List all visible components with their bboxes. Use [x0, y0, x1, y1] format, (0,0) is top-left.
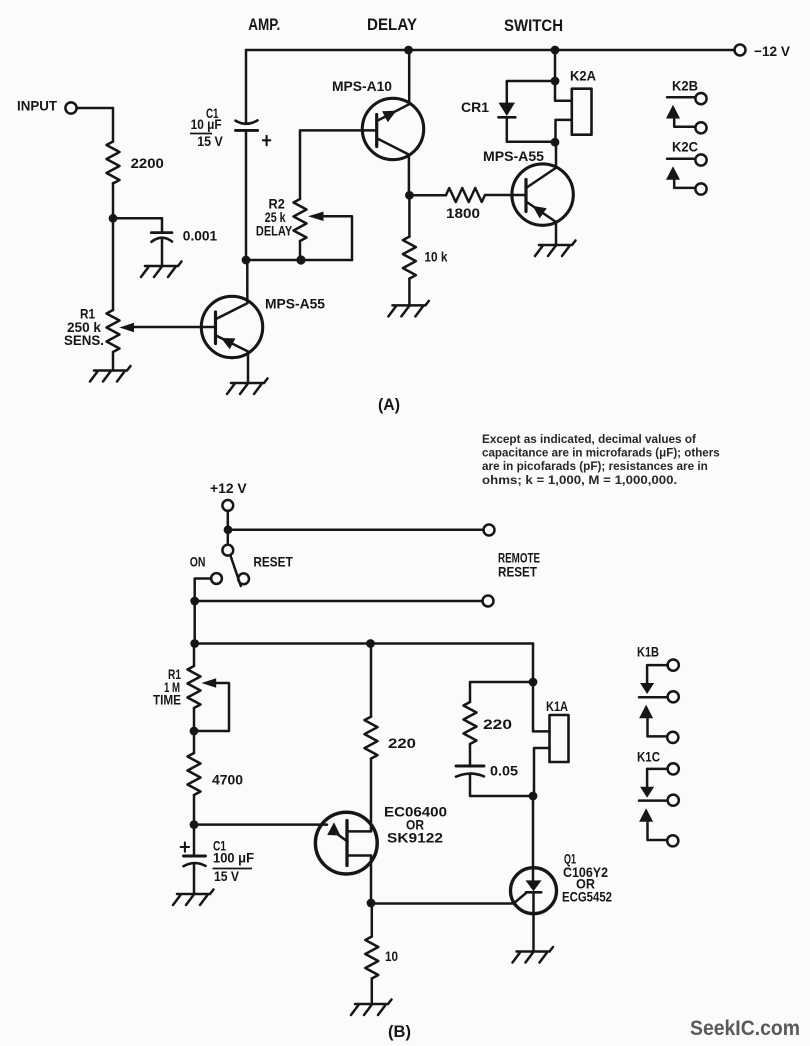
svg-text:K1A: K1A	[546, 698, 568, 714]
svg-text:K1B: K1B	[637, 644, 659, 660]
svg-text:K2C: K2C	[672, 139, 698, 155]
svg-text:ON: ON	[190, 554, 206, 570]
svg-text:CR1: CR1	[461, 99, 489, 115]
svg-text:1800: 1800	[446, 205, 480, 221]
svg-text:MPS-A55: MPS-A55	[483, 148, 544, 164]
svg-text:0.001: 0.001	[183, 228, 218, 244]
svg-text:are in picofarads (pF); resist: are in picofarads (pF); resistances are …	[482, 459, 708, 473]
svg-text:K2A: K2A	[570, 68, 596, 84]
svg-text:DELAY: DELAY	[256, 223, 293, 239]
svg-text:MPS-A10: MPS-A10	[332, 78, 392, 94]
svg-text:DELAY: DELAY	[367, 16, 417, 34]
svg-text:10 k: 10 k	[424, 249, 447, 265]
svg-text:SWITCH: SWITCH	[504, 17, 563, 35]
svg-text:220: 220	[388, 735, 416, 751]
svg-text:(B): (B)	[388, 1023, 411, 1041]
svg-text:TIME: TIME	[153, 692, 181, 708]
svg-text:15 V: 15 V	[214, 868, 240, 884]
svg-text:220: 220	[483, 716, 512, 732]
svg-text:K2B: K2B	[672, 78, 698, 94]
svg-text:Except as indicated, decimal v: Except as indicated, decimal values of	[482, 432, 696, 446]
svg-text:4700: 4700	[212, 772, 243, 788]
svg-text:K1C: K1C	[637, 749, 660, 765]
svg-text:2200: 2200	[131, 155, 165, 171]
svg-text:+12 V: +12 V	[210, 480, 247, 496]
svg-text:SK9122: SK9122	[387, 830, 443, 846]
svg-text:10 μF: 10 μF	[191, 116, 222, 132]
svg-text:RESET: RESET	[253, 554, 293, 570]
svg-text:capacitance are in microfarads: capacitance are in microfarads (μF); oth…	[482, 446, 720, 460]
svg-text:−12 V: −12 V	[754, 43, 791, 59]
svg-text:100 μF: 100 μF	[213, 850, 254, 866]
svg-text:10: 10	[385, 948, 398, 964]
svg-text:ohms; k = 1,000, M = 1,000,000: ohms; k = 1,000, M = 1,000,000.	[482, 473, 677, 487]
svg-text:0.05: 0.05	[490, 763, 518, 779]
svg-text:MPS-A55: MPS-A55	[265, 296, 325, 312]
svg-text:INPUT: INPUT	[17, 98, 57, 114]
svg-text:ECG5452: ECG5452	[562, 889, 612, 905]
svg-text:RESET: RESET	[498, 564, 537, 580]
svg-text:AMP.: AMP.	[248, 16, 280, 34]
svg-text:(A): (A)	[378, 396, 400, 414]
svg-text:SENS.: SENS.	[64, 332, 104, 348]
svg-text:SeekIC.com: SeekIC.com	[690, 1017, 800, 1040]
svg-text:15 V: 15 V	[197, 133, 223, 149]
